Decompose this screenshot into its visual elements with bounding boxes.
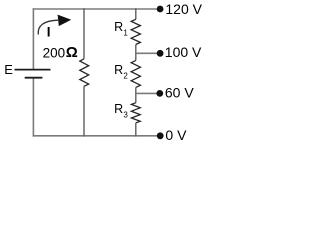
wire middle branch upper lead bbox=[83, 8, 85, 59]
wire right branch lead below R3 bbox=[135, 123, 137, 137]
resistor R1 zigzag bbox=[131, 19, 140, 44]
wire right branch between R2 and R3 bbox=[135, 87, 137, 102]
wire tap 100V bbox=[136, 52, 160, 54]
resistor R3 zigzag bbox=[131, 103, 140, 123]
svg-text:2: 2 bbox=[123, 72, 128, 81]
svg-text:0 V: 0 V bbox=[165, 127, 187, 143]
svg-text:1: 1 bbox=[123, 29, 128, 38]
svg-text:R: R bbox=[114, 20, 123, 34]
current arrow curve bbox=[38, 20, 58, 34]
wire left vertical lower (battery bottom lead) bbox=[32, 78, 34, 137]
wire tap 60V bbox=[136, 92, 160, 94]
wire right branch between R1 and R2 bbox=[135, 45, 137, 61]
svg-text:Ω: Ω bbox=[66, 44, 78, 61]
svg-text:I: I bbox=[47, 24, 51, 39]
wire top horizontal bbox=[33, 8, 160, 10]
svg-text:60 V: 60 V bbox=[165, 85, 194, 101]
svg-text:R: R bbox=[114, 63, 123, 77]
node 120V terminal dot bbox=[157, 6, 164, 13]
svg-text:R: R bbox=[114, 102, 123, 116]
node 0V terminal dot bbox=[157, 132, 164, 139]
battery E long plate bbox=[15, 69, 51, 71]
node 100V terminal dot bbox=[157, 50, 164, 57]
svg-text:200: 200 bbox=[43, 46, 66, 61]
wire right branch lead above R1 bbox=[135, 8, 137, 19]
svg-text:3: 3 bbox=[123, 110, 128, 119]
resistor R2 zigzag bbox=[131, 60, 140, 87]
wire bottom horizontal bbox=[33, 135, 160, 137]
wire middle branch lower lead bbox=[83, 86, 85, 136]
resistor 200 ohm zigzag bbox=[80, 59, 89, 87]
wire left vertical upper (battery top lead) bbox=[32, 8, 34, 69]
svg-text:120 V: 120 V bbox=[165, 1, 202, 17]
battery E short plate bbox=[25, 77, 43, 79]
current arrow head bbox=[58, 15, 72, 27]
svg-text:100 V: 100 V bbox=[165, 44, 202, 60]
node 60V terminal dot bbox=[156, 90, 163, 97]
svg-text:E: E bbox=[4, 62, 13, 77]
